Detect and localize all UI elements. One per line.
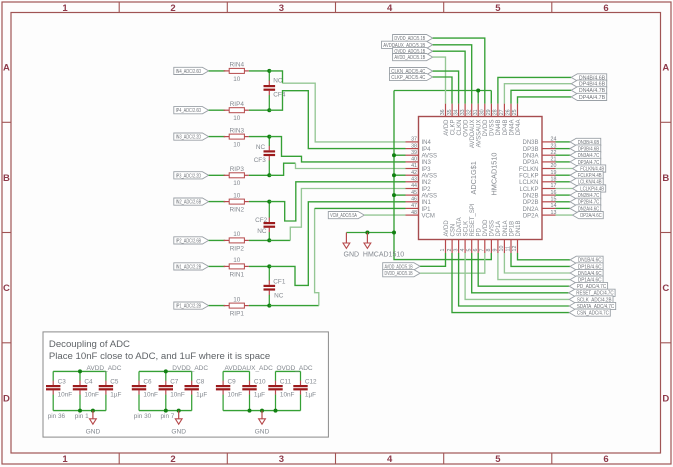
svg-text:IP3: IP3 [422, 167, 432, 173]
resistor RIN2 value 10 [224, 192, 249, 213]
junction IN1/CF1 [267, 264, 271, 268]
pin 35 CLKP [447, 104, 457, 135]
svg-text:10nF: 10nF [143, 392, 158, 399]
capacitor CF3 value NC [264, 137, 276, 176]
junction gnd2 [177, 409, 181, 413]
svg-text:10: 10 [499, 246, 505, 252]
svg-text:10: 10 [233, 192, 241, 199]
svg-text:4: 4 [460, 249, 466, 252]
wire group2 bottom rail [139, 410, 192, 412]
net label AVDD_ADC/5.1B [383, 263, 420, 271]
svg-text:DP1A: DP1A [496, 221, 502, 237]
junction C11 bottom [274, 409, 278, 413]
svg-text:DVSS: DVSS [490, 220, 496, 236]
net label DN3B/4.6B [570, 138, 601, 146]
svg-text:C4: C4 [84, 379, 93, 386]
svg-text:DN1B: DN1B [516, 220, 522, 236]
pin 27 DP4B [499, 104, 509, 135]
net label DP4A/4.7B [571, 93, 607, 101]
svg-text:AVSS: AVSS [422, 174, 438, 180]
svg-text:pin 7: pin 7 [161, 413, 175, 420]
svg-text:D: D [662, 393, 669, 404]
junction AVSSAUX pin31 [476, 89, 480, 93]
svg-text:B: B [662, 173, 669, 184]
wire pin to DN1A/4.6C [504, 253, 570, 273]
node AVDD_ADC rail [53, 370, 106, 372]
wire IN4 to pin 37 [269, 71, 282, 83]
wire DVDD_ADC to pin 7 [420, 253, 485, 273]
wire pin 17 to label [556, 188, 573, 190]
pin 44 IP2 [406, 183, 432, 193]
svg-text:VCM: VCM [422, 213, 435, 219]
pin 11 DP1B [506, 221, 516, 253]
svg-text:RIN3: RIN3 [230, 127, 245, 134]
junction GND symbol 2 [365, 231, 369, 235]
svg-text:32: 32 [466, 109, 472, 115]
svg-text:VCM_ADC/5.5A: VCM_ADC/5.5A [330, 213, 357, 219]
svg-text:10: 10 [233, 76, 241, 83]
wire IN3 to pin 40 [269, 137, 405, 162]
pin 23 DP3B [523, 143, 557, 153]
svg-text:C7: C7 [170, 379, 179, 386]
svg-text:Place 10nF close to ADC, and 1: Place 10nF close to ADC, and 1uF where i… [49, 351, 270, 362]
capacitor C3 value 10nF [46, 371, 72, 410]
svg-text:35: 35 [447, 109, 453, 115]
svg-text:IP4_ADC/2.6D: IP4_ADC/2.6D [176, 108, 202, 114]
pin 8 DVSS [486, 220, 496, 253]
svg-text:IN1_ADC/2.2B: IN1_ADC/2.2B [176, 264, 202, 270]
wire IN1 to pin 46 [269, 202, 405, 286]
wire pin 13 to label [556, 214, 573, 216]
svg-text:RIN2: RIN2 [230, 207, 245, 214]
wire AVSS top to AVSSAUX/DVSS [394, 90, 491, 92]
svg-text:LCLKP: LCLKP [519, 187, 538, 193]
wire IP1_ADC/2.2B flag to RIP1 [209, 305, 226, 307]
pin 16 DN2B [522, 190, 556, 200]
svg-text:39: 39 [411, 150, 417, 156]
net label AVDD_ADC/5.1B [393, 54, 433, 62]
svg-text:IN3: IN3 [422, 160, 432, 166]
pin 46 IN1 [406, 197, 432, 207]
capacitor CF2 value NC [264, 202, 276, 241]
svg-text:GND: GND [171, 428, 186, 435]
net label DN1A/4.6C [570, 269, 603, 277]
svg-text:10nF: 10nF [84, 392, 99, 399]
wire pin 23 to label [556, 148, 571, 150]
wire pin 22 to label [556, 154, 571, 156]
svg-text:26: 26 [506, 109, 512, 115]
wire AVSS to pin 45 [394, 194, 406, 196]
pin 20 FCLKN [519, 163, 557, 173]
svg-text:10nF: 10nF [228, 392, 243, 399]
net label DP1B/4.6C [570, 263, 603, 271]
net label DN1B/4.6C [570, 256, 603, 264]
junction AVSS pin39 [392, 153, 396, 157]
svg-text:10: 10 [233, 180, 241, 187]
junction IP3/CF3 [267, 173, 271, 177]
junction C4 top [78, 369, 82, 373]
wire VCM to pin 48 [364, 214, 405, 216]
wire IP1 to pin 47 [269, 305, 319, 307]
svg-text:25: 25 [512, 109, 518, 115]
svg-text:36: 36 [440, 109, 446, 115]
pin 6 PD [473, 227, 483, 253]
wire GND horizontal [346, 232, 394, 234]
svg-text:A: A [3, 63, 10, 74]
svg-text:DN1A: DN1A [503, 220, 509, 236]
wire AVDDAUX_ADC/5.1B to top pin [433, 45, 472, 104]
junction C10 bottom [248, 409, 252, 413]
svg-text:27: 27 [499, 109, 505, 115]
net label SDATA_ADC/4.7C [569, 302, 616, 310]
svg-text:C6: C6 [143, 379, 152, 386]
svg-text:DN4B: DN4B [496, 120, 502, 136]
svg-text:DN2A: DN2A [522, 207, 538, 213]
svg-text:2: 2 [170, 454, 175, 465]
svg-text:10: 10 [233, 257, 241, 264]
svg-text:DP2A/4.6C: DP2A/4.6C [580, 213, 602, 219]
net label IN4_ADC/2.6D [174, 67, 209, 75]
svg-text:CSN: CSN [450, 224, 456, 237]
svg-text:IN2: IN2 [422, 180, 432, 186]
svg-text:OVDD: OVDD [463, 119, 469, 137]
svg-text:SDATA: SDATA [457, 217, 463, 236]
pin 14 DN2A [522, 203, 556, 213]
capacitor CF4 value NC [264, 71, 276, 110]
ground GND [343, 233, 350, 249]
svg-text:FCLKN: FCLKN [519, 167, 539, 173]
wire pin to DN1B/4.6C [518, 253, 571, 260]
svg-text:C11: C11 [280, 379, 292, 386]
svg-text:CF4: CF4 [273, 91, 286, 98]
svg-text:45: 45 [411, 190, 417, 196]
wire IN2_ADC/2.6B flag to RIN2 [209, 201, 226, 203]
svg-text:HMCAD1510: HMCAD1510 [363, 251, 404, 258]
wire group1 bottom rail [53, 410, 106, 412]
svg-text:C10: C10 [254, 379, 266, 386]
svg-text:NC: NC [257, 228, 267, 235]
svg-text:5: 5 [495, 454, 501, 465]
net label IP1_ADC/2.2B [174, 302, 209, 310]
net label FCLKN/4.4B [573, 165, 606, 173]
svg-text:1: 1 [440, 249, 446, 252]
wire RIN1 to junction [249, 265, 269, 267]
pin 42 AVSS [406, 170, 438, 180]
wire pin 14 to label [556, 207, 571, 209]
svg-text:B: B [3, 173, 10, 184]
junction AVSS/GND corner [392, 231, 396, 235]
pin 2 CSN [447, 224, 457, 253]
svg-text:IP1: IP1 [422, 207, 432, 213]
svg-text:GND: GND [255, 428, 270, 435]
svg-text:41: 41 [411, 163, 417, 169]
capacitor C12 value 1µF [293, 371, 317, 410]
svg-text:2: 2 [447, 249, 453, 252]
svg-text:1µF: 1µF [254, 392, 265, 399]
net label CLKP_ADC/5.4C [390, 73, 433, 81]
svg-text:FCLKP: FCLKP [519, 174, 538, 180]
svg-text:IP3_ADC/2.2D: IP3_ADC/2.2D [176, 173, 202, 179]
capacitor C8 value 1µF [185, 371, 208, 410]
svg-text:AVSSAUX: AVSSAUX [477, 120, 483, 148]
junction AVSS pin42 [392, 173, 396, 177]
pin 26 DN4A [506, 104, 516, 136]
pin 31 AVSSAUX [473, 104, 483, 148]
svg-text:28: 28 [493, 109, 499, 115]
svg-text:AVDDAUX: AVDDAUX [470, 120, 476, 149]
svg-text:48: 48 [411, 210, 417, 216]
svg-text:1: 1 [62, 454, 68, 465]
svg-text:3: 3 [279, 454, 284, 465]
svg-text:GND: GND [86, 428, 101, 435]
pin 34 CLKN [453, 104, 463, 136]
net label DN2B/4.7C [570, 192, 601, 200]
junction gnd3 [260, 409, 264, 413]
svg-text:CSN_ADC/4.7C: CSN_ADC/4.7C [577, 311, 609, 317]
svg-text:30: 30 [480, 109, 486, 115]
node AVDDAUX_ADC rail [223, 370, 249, 372]
net label DP3A/4.7C [570, 158, 601, 166]
svg-text:33: 33 [460, 109, 466, 115]
svg-text:DP1B: DP1B [509, 221, 515, 237]
net label DP3B/4.6B [570, 145, 601, 153]
svg-text:AVDD: AVDD [444, 220, 450, 237]
svg-text:12: 12 [512, 246, 518, 252]
wire pin to DP1B/4.6C [511, 253, 570, 266]
svg-text:RIN4: RIN4 [230, 62, 245, 69]
wire DP4A pin to label [518, 97, 572, 104]
capacitor C6 value 10nF [132, 371, 158, 410]
pin 25 DP4A [512, 104, 522, 135]
wire DVSS bottom loop to pin 8 [394, 233, 491, 260]
svg-text:47: 47 [411, 203, 417, 209]
svg-text:CF3: CF3 [254, 157, 267, 164]
wire DN4B pin to label [498, 77, 571, 103]
pin 22 DN3A [522, 150, 556, 160]
svg-text:CF2: CF2 [255, 217, 268, 224]
net label RESET_ADC/4.7C [569, 289, 616, 297]
svg-text:C: C [662, 283, 669, 294]
svg-text:DP2B: DP2B [523, 200, 539, 206]
IC ADC1G$1 HMCAD1510 body [419, 117, 543, 240]
resistor RIN4 value 10 [224, 62, 249, 83]
svg-text:NC: NC [256, 144, 266, 151]
svg-text:DVDD: DVDD [483, 119, 489, 137]
junction AVSS pin45 [392, 193, 396, 197]
svg-text:IN1: IN1 [422, 200, 432, 206]
svg-text:IN4_ADC/2.6D: IN4_ADC/2.6D [176, 69, 202, 75]
pin 32 AVDDAUX [466, 104, 476, 148]
svg-text:DN4A: DN4A [509, 120, 515, 136]
svg-text:AVDD: AVDD [444, 119, 450, 136]
svg-text:6: 6 [603, 3, 608, 14]
net label DN4B/4.6B [571, 74, 607, 82]
pin 10 DN1A [499, 220, 509, 253]
svg-text:RIN1: RIN1 [230, 271, 245, 278]
decoupling info box [43, 332, 328, 437]
pin 3 SDATA [453, 217, 463, 253]
wire pin to SDATA_ADC/4.7C [459, 253, 570, 306]
net label DVDD_ADC/5.1B [383, 270, 420, 278]
junction IN2/CF2 [267, 200, 271, 204]
svg-text:RESET_SPI: RESET_SPI [470, 203, 476, 236]
svg-text:IP4: IP4 [422, 147, 432, 153]
pin 30 DVDD [480, 104, 490, 137]
svg-text:10nF: 10nF [280, 392, 295, 399]
junction C7 top [164, 369, 168, 373]
svg-text:IN4: IN4 [422, 140, 432, 146]
wire RIN3 to junction [249, 136, 269, 138]
svg-text:10: 10 [233, 231, 241, 238]
wire pin 19 to label [556, 174, 571, 176]
svg-text:1: 1 [62, 3, 68, 14]
pin 5 RESET_SPI [466, 203, 476, 253]
svg-text:RIP4: RIP4 [230, 101, 245, 108]
svg-text:NC: NC [273, 77, 283, 84]
svg-text:IP1_ADC/2.2B: IP1_ADC/2.2B [176, 304, 202, 310]
net label LCLKP/4.4B [573, 185, 606, 193]
wire DN4A pin to label [511, 90, 571, 103]
capacitor C11 value 10nF [268, 371, 294, 410]
resistor RIN3 value 10 [224, 127, 249, 148]
net label IN3_ADC/2.2D [174, 133, 209, 141]
svg-text:GND: GND [344, 251, 360, 258]
svg-text:pin 30: pin 30 [134, 413, 152, 420]
capacitor C5 value 1µF [99, 371, 122, 410]
capacitor C7 value 10nF [159, 371, 185, 410]
wire pin to SCLK_ADC/4.2B [465, 253, 569, 299]
net label DN2A/4.6C [570, 205, 601, 213]
net label SCLK_ADC/4.2B [569, 296, 613, 304]
ground group1 [90, 411, 97, 425]
junction IN4/CF4 [267, 69, 271, 73]
pin 38 IP4 [406, 143, 432, 153]
svg-text:SCLK: SCLK [463, 221, 469, 237]
pin 37 IN4 [406, 137, 432, 147]
pin 12 DN1B [512, 220, 522, 253]
wire RIN4 to junction [249, 70, 269, 72]
pin 17 LCLKP [519, 183, 556, 193]
svg-text:10nF: 10nF [170, 392, 185, 399]
svg-text:A: A [662, 63, 669, 74]
net label VCM_ADC/5.5A [328, 212, 364, 220]
svg-text:NC: NC [274, 293, 284, 300]
wire IN2 to pin 43 [269, 182, 405, 221]
wire pin to RESET_ADC/4.7C [472, 253, 569, 293]
wire RIN2 to junction [249, 201, 269, 203]
resistor RIP3 value 10 [224, 166, 249, 187]
wire DVDD_ADC/5.1B to top pin [433, 38, 485, 104]
net label OVDD_ADC/5.1B [393, 48, 433, 56]
wire group3 bottom rail [223, 410, 300, 412]
svg-text:AVSS: AVSS [422, 154, 438, 160]
wire RIP2 to junction [249, 239, 269, 241]
wire pin 16 to label [556, 194, 571, 196]
pin 43 IN2 [406, 177, 432, 187]
svg-text:CF1: CF1 [273, 279, 286, 286]
svg-text:CLKP_ADC/5.4C: CLKP_ADC/5.4C [391, 75, 425, 81]
resistor RIP1 value 10 [224, 296, 249, 317]
wire IN3_ADC/2.2D flag to RIN3 [209, 136, 226, 138]
svg-text:D: D [3, 393, 10, 404]
svg-text:6: 6 [473, 249, 479, 252]
svg-text:CLKN: CLKN [457, 120, 463, 136]
svg-text:C8: C8 [196, 379, 205, 386]
wire pin 15 to label [556, 201, 571, 203]
net label LCLKN/4.4B [570, 178, 603, 186]
wire RIP3 to junction [249, 174, 269, 176]
pin 13 DP2A [523, 210, 557, 220]
net label DN4A/4.7B [571, 87, 607, 95]
wire CLKP_ADC/5.4C to top pin [433, 77, 452, 104]
wire pin 18 to label [556, 181, 571, 183]
net label IN2_ADC/2.6B [174, 198, 209, 206]
net label CSN_ADC/4.7C [569, 309, 610, 317]
svg-text:pin 36: pin 36 [48, 413, 66, 420]
svg-text:OVDD_ADC: OVDD_ADC [277, 365, 313, 372]
wire pin to CSN_ADC/4.7C [452, 253, 569, 313]
pin 47 IP1 [406, 203, 432, 213]
pin 29 DVSS [486, 104, 496, 136]
wire AVSS to pin 39 [394, 154, 406, 156]
junction C7 bottom [164, 409, 168, 413]
svg-text:34: 34 [453, 109, 459, 115]
net label IP4_ADC/2.6D [174, 107, 209, 115]
pin 19 FCLKP [519, 170, 556, 180]
svg-text:CLKP: CLKP [450, 120, 456, 136]
svg-text:AVDD_ADC: AVDD_ADC [87, 365, 122, 372]
svg-text:1µF: 1µF [305, 392, 316, 399]
svg-text:IN3_ADC/2.2D: IN3_ADC/2.2D [176, 135, 202, 141]
wire IN1_ADC/2.2B flag to RIN1 [209, 265, 226, 267]
net label CLKN_ADC/5.4C [390, 68, 433, 76]
svg-text:4: 4 [387, 454, 393, 465]
svg-text:ADC1G$1: ADC1G$1 [469, 161, 478, 194]
svg-text:46: 46 [411, 197, 417, 203]
svg-text:11: 11 [506, 246, 512, 252]
resistor RIP2 value 10 [224, 231, 249, 252]
ground HMCAD1510 [364, 233, 371, 249]
node OVDD_ADC rail [276, 370, 301, 372]
svg-text:RIP2: RIP2 [230, 245, 245, 252]
net label DP2B/4.7C [570, 198, 601, 206]
svg-text:pin 1: pin 1 [75, 413, 89, 420]
wire DP4B pin to label [504, 84, 571, 104]
pin 4 SCLK [460, 221, 470, 253]
svg-text:C3: C3 [58, 379, 67, 386]
svg-text:DVDD: DVDD [483, 219, 489, 237]
wire AVDD_ADC to pin 1 [420, 253, 445, 266]
svg-text:5: 5 [466, 249, 472, 252]
svg-text:DN2B: DN2B [522, 193, 538, 199]
net label DP1A/4.6C [570, 276, 603, 284]
wire RIP1 to junction [249, 305, 269, 307]
pin 33 OVDD [460, 104, 470, 137]
net label DN3A/4.7C [570, 152, 601, 160]
ground group2 [175, 411, 182, 425]
junction IP2/CF2 [267, 238, 271, 242]
svg-text:DP4B: DP4B [503, 120, 509, 136]
svg-text:IN2_ADC/2.6B: IN2_ADC/2.6B [176, 200, 202, 206]
svg-text:DP4A/4.7B: DP4A/4.7B [579, 95, 606, 101]
svg-text:10nF: 10nF [58, 392, 73, 399]
pin 41 IP3 [406, 163, 432, 173]
svg-text:DP3B: DP3B [523, 147, 539, 153]
wire IP2_ADC/2.6B flag to RIP2 [209, 239, 226, 241]
capacitor C4 value 10nF [73, 371, 99, 410]
svg-text:HMCAD1510: HMCAD1510 [490, 153, 499, 196]
svg-text:Decoupling of ADC: Decoupling of ADC [49, 339, 130, 350]
